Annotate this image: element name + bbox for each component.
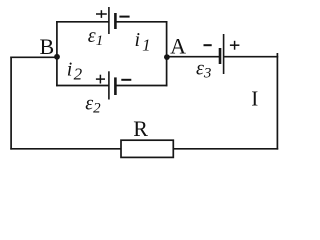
wire inner right edge lower xyxy=(166,57,168,86)
node A junction dot xyxy=(164,54,170,60)
battery ε2 short plate (−) xyxy=(114,77,117,95)
plus sign of ε2 xyxy=(96,75,105,84)
wire inner left edge lower (B down) xyxy=(56,57,58,86)
svg-text:A: A xyxy=(170,34,186,59)
battery ε3 long plate (+) xyxy=(223,34,225,74)
battery ε2 long plate (+) xyxy=(108,71,110,99)
svg-text:ε2: ε2 xyxy=(85,93,101,117)
wire inner left edge upper (B up) xyxy=(56,21,58,57)
plus sign of ε3 xyxy=(230,41,240,50)
node B junction dot xyxy=(54,54,60,60)
wire inner top left xyxy=(56,21,109,23)
svg-text:R: R xyxy=(133,116,148,141)
battery ε1 long plate (+) xyxy=(108,7,110,34)
svg-text:I: I xyxy=(251,87,258,111)
wire inner right edge upper xyxy=(166,21,168,57)
wire outer left edge xyxy=(10,57,12,150)
svg-text:ε3: ε3 xyxy=(196,58,211,82)
resistor R xyxy=(121,140,173,157)
wire bottom resistor to right corner xyxy=(173,148,278,150)
svg-text:i1: i1 xyxy=(135,29,151,55)
battery ε3 short plate (−) xyxy=(219,48,222,64)
wire bottom left to resistor xyxy=(10,148,121,150)
wire inner bottom right xyxy=(115,85,167,87)
minus sign of ε1 xyxy=(119,16,129,18)
battery ε1 short plate (−) xyxy=(114,13,117,29)
wire outer right edge xyxy=(276,53,278,150)
svg-text:B: B xyxy=(40,34,55,59)
wire battery ε3 to right corner xyxy=(224,56,279,58)
minus sign of ε2 xyxy=(121,79,131,81)
wire inner top right xyxy=(115,21,167,23)
plus sign of ε1 xyxy=(96,10,107,18)
svg-text:ε1: ε1 xyxy=(88,25,103,49)
svg-text:i2: i2 xyxy=(67,59,83,84)
wire from node B to outer left edge xyxy=(10,56,57,58)
minus sign of ε3 xyxy=(204,44,212,46)
wire inner bottom left xyxy=(56,85,109,87)
wire node A to battery ε3 xyxy=(167,56,220,58)
